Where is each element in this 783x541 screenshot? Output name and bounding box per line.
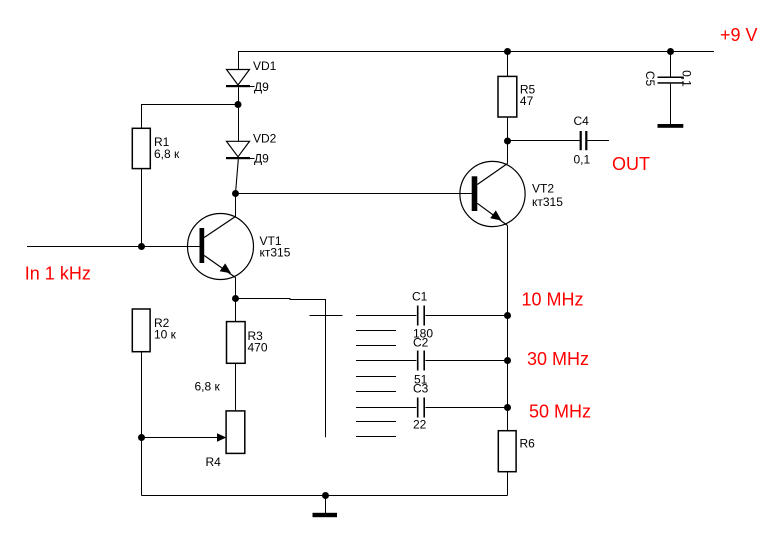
capacitor C1 <box>417 306 425 326</box>
potentiometer R4 <box>226 411 245 454</box>
wire: VT1 emitter to wiper plate <box>236 299 326 438</box>
wire: C2 to bus (30 MHz tap) <box>425 360 507 362</box>
wire: R5 bottom to collector node <box>507 117 509 141</box>
wire: C4 to OUT stub <box>587 140 609 142</box>
wire: R6 bottom to ground rail <box>507 472 509 496</box>
svg-text:кт315: кт315 <box>260 246 291 260</box>
svg-text:VD1: VD1 <box>253 59 277 73</box>
svg-text:VD2: VD2 <box>253 131 277 145</box>
svg-text:50 MHz: 50 MHz <box>529 402 591 422</box>
capacitor C3 <box>417 398 425 418</box>
comb contact row 9 <box>356 436 396 438</box>
wire: emitter node to R3 top <box>235 299 237 322</box>
node: 50 MHz tap <box>504 404 511 411</box>
node: VT1 emitter junction <box>232 295 239 302</box>
svg-text:22: 22 <box>413 417 427 431</box>
comb contact row 2 <box>356 330 396 332</box>
resistor R1 <box>132 128 150 168</box>
wire: C3 to bus (50 MHz tap) <box>425 407 507 409</box>
comb contact row 7 (to C3) <box>356 407 416 409</box>
comb contact row 5 <box>356 376 396 378</box>
node: ground junction <box>322 492 329 499</box>
capacitor C4 <box>580 131 588 150</box>
wire: R3 bottom to R4 top <box>235 363 237 411</box>
wiper plate bar <box>310 315 343 317</box>
wire: input to VT1 base <box>27 246 200 248</box>
wire: node A to VD2 anode <box>238 105 240 142</box>
svg-text:C5: C5 <box>643 71 657 87</box>
comb contact row 1 (to C1) <box>356 315 416 317</box>
svg-text:0,1: 0,1 <box>574 152 591 166</box>
wire: VT2 emitter bus <box>507 226 509 431</box>
diode VD2 <box>226 141 255 159</box>
node B (VT1 collector / VT2 base) <box>232 190 239 197</box>
node: 10 MHz tap <box>504 312 511 319</box>
wire: +9V top rail <box>238 51 714 70</box>
diode VD1 <box>226 70 255 88</box>
svg-text:OUT: OUT <box>612 154 650 174</box>
capacitor C2 <box>417 351 425 371</box>
svg-text:10 MHz: 10 MHz <box>522 289 584 309</box>
svg-text:VT2: VT2 <box>532 181 554 195</box>
svg-text:C2: C2 <box>413 335 429 349</box>
comb contact row 8 <box>356 421 396 423</box>
svg-text:0,1: 0,1 <box>680 70 694 87</box>
capacitor C5 <box>658 51 684 124</box>
svg-text:R6: R6 <box>520 437 536 451</box>
node: 30 MHz tap <box>504 357 511 364</box>
resistor R2 <box>132 309 150 352</box>
svg-text:470: 470 <box>248 341 268 355</box>
svg-text:C1: C1 <box>412 289 428 303</box>
wire: node B to VT2 base <box>236 193 472 195</box>
node: R5 top junction <box>504 48 511 55</box>
svg-text:In 1 kHz: In 1 kHz <box>25 264 91 284</box>
wire: bottom ground rail <box>142 495 508 497</box>
node: R4 wiper junction <box>138 434 145 441</box>
wire: R2 bottom down to bottom rail <box>141 352 143 496</box>
svg-text:Д9: Д9 <box>254 152 269 166</box>
svg-text:6,8 к: 6,8 к <box>154 147 180 161</box>
comb contact row 3 <box>356 345 396 347</box>
resistor R3 <box>227 322 246 364</box>
ground (C5) <box>658 124 684 128</box>
wire: C1 to bus (10 MHz tap) <box>425 315 507 317</box>
wire: R1 bottom to input node <box>141 169 143 247</box>
wire: VD2 cathode to node B <box>236 159 239 193</box>
wire: wiper arm to R4 with arrowhead <box>142 433 227 442</box>
wire: collector node to C4 <box>508 140 580 142</box>
comb contact row 4 (to C2) <box>356 360 416 362</box>
transistor VT2 <box>460 141 525 227</box>
svg-text:C3: C3 <box>413 381 429 395</box>
resistor R6 <box>498 431 516 472</box>
node A (VD1/VD2/R1 junction) <box>235 101 242 108</box>
transistor VT1 <box>188 194 254 299</box>
svg-text:Д9: Д9 <box>254 80 269 94</box>
svg-text:C4: C4 <box>574 114 590 128</box>
wire: rail to R5 <box>507 51 509 76</box>
svg-text:+9 V: +9 V <box>720 25 758 45</box>
resistor R5 <box>498 76 517 117</box>
svg-text:R4: R4 <box>206 455 222 469</box>
node: C5 top junction <box>667 48 674 55</box>
node: input junction <box>138 243 145 250</box>
svg-text:10 к: 10 к <box>154 328 177 342</box>
wire: VD1 cathode to node A <box>238 87 240 104</box>
svg-text:30 MHz: 30 MHz <box>527 349 589 369</box>
wire: node A to R1 top <box>142 105 239 129</box>
node: VT2 collector / C4 junction <box>504 138 511 145</box>
ground (bottom) <box>313 496 338 518</box>
svg-text:47: 47 <box>520 94 534 108</box>
comb contact row 6 <box>356 391 396 393</box>
svg-text:кт315: кт315 <box>532 195 563 209</box>
svg-text:6,8 к: 6,8 к <box>195 379 221 393</box>
